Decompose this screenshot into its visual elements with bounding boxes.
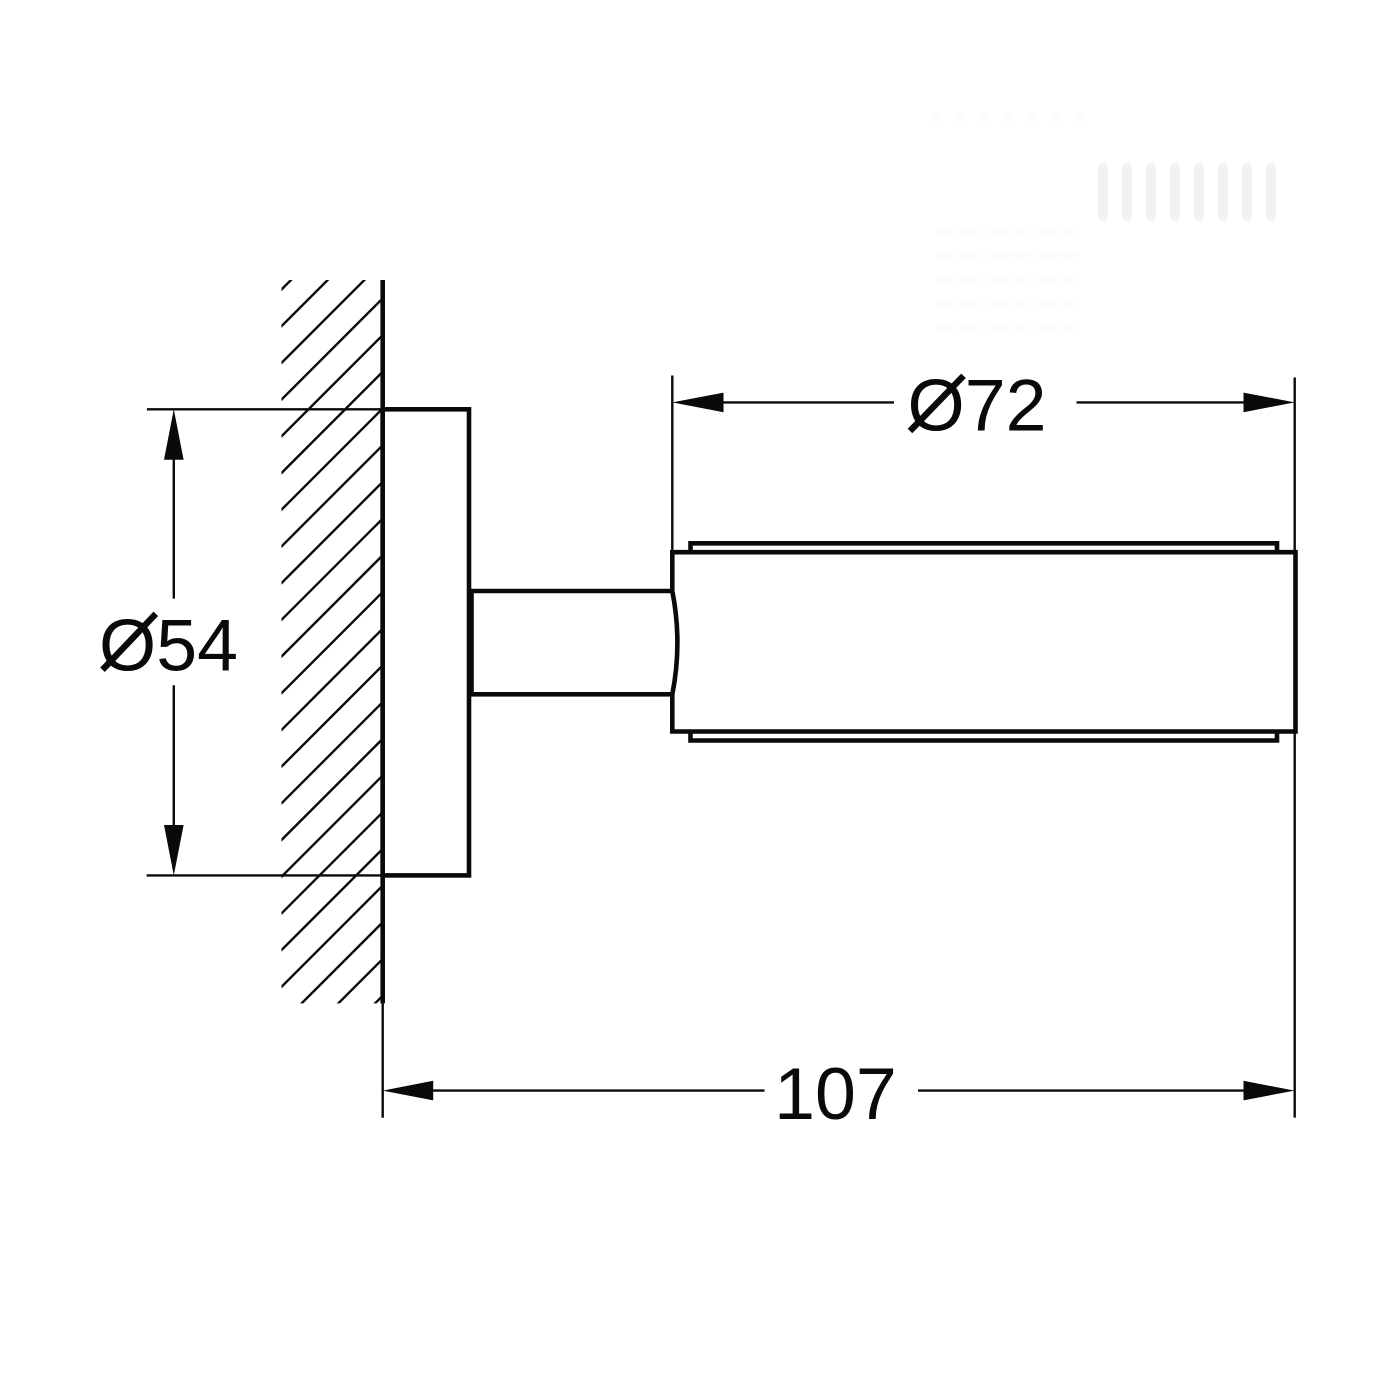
svg-text:O72: O72: [908, 364, 1047, 447]
svg-text:107: 107: [774, 1052, 897, 1135]
svg-text:O54: O54: [99, 604, 238, 687]
